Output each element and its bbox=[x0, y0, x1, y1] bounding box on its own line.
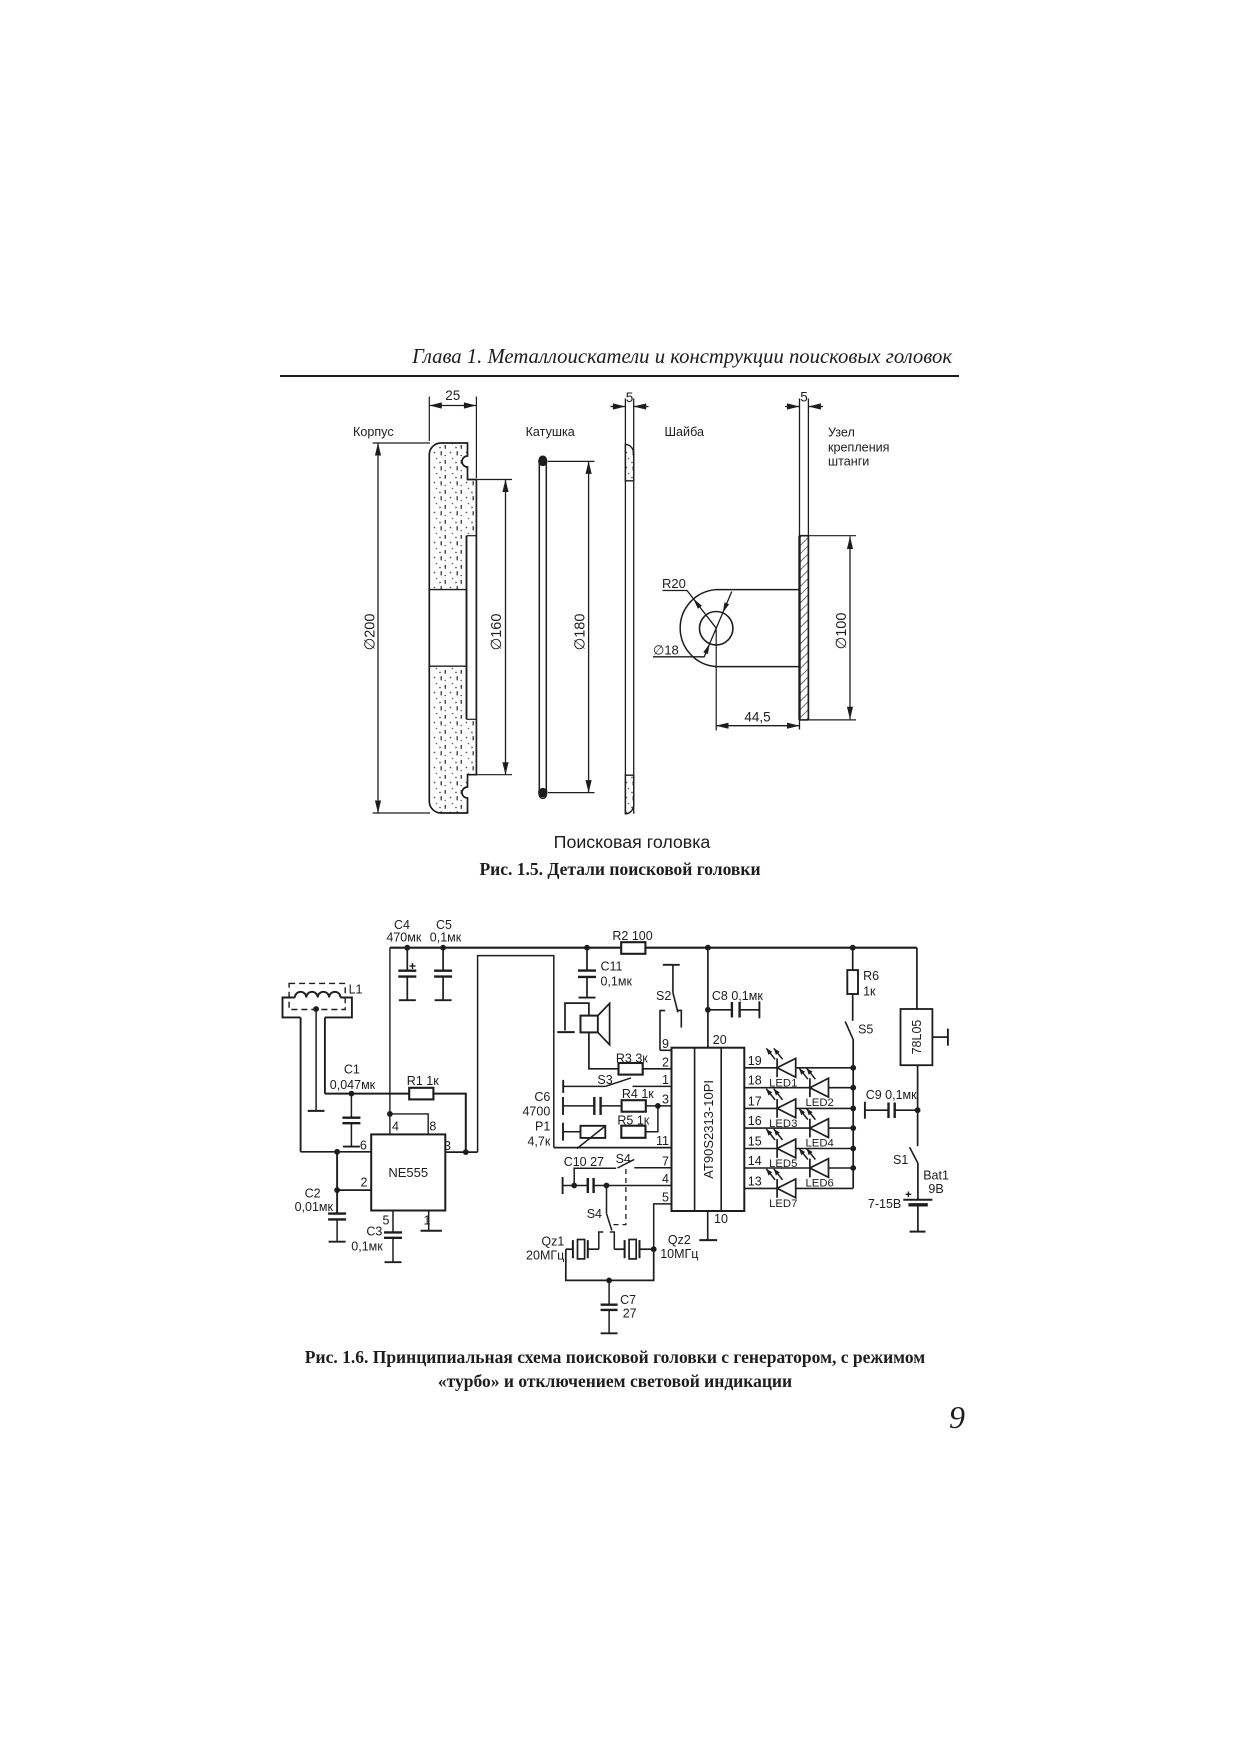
wire battery minus + ground bbox=[917, 1205, 919, 1232]
crystal Qz2 bbox=[614, 1248, 624, 1250]
washer profile bbox=[624, 399, 626, 814]
trimmer P1 bbox=[562, 1123, 564, 1141]
svg-text:0,1мк: 0,1мк bbox=[601, 975, 633, 989]
svg-text:C3: C3 bbox=[366, 1225, 382, 1239]
svg-text:4,7к: 4,7к bbox=[527, 1135, 550, 1149]
wire R5 to pin3 node bbox=[645, 1106, 658, 1132]
svg-text:20МГц: 20МГц bbox=[526, 1249, 564, 1263]
body inner slot lines bbox=[467, 535, 477, 537]
capacitor C11 bbox=[584, 945, 590, 951]
switch S4 lower bbox=[606, 1186, 608, 1214]
wire pin 11 bbox=[554, 1147, 672, 1149]
svg-text:L1: L1 bbox=[349, 983, 363, 997]
svg-text:P1: P1 bbox=[535, 1120, 550, 1134]
capacitor C9 bbox=[864, 1102, 866, 1119]
svg-text:Qz2: Qz2 bbox=[668, 1233, 691, 1247]
svg-text:C1: C1 bbox=[344, 1063, 360, 1077]
IC NE555 bbox=[371, 1134, 445, 1210]
mounting bar bbox=[799, 399, 801, 730]
svg-text:Bat1: Bat1 bbox=[923, 1169, 949, 1183]
S4 linkage (dashed) bbox=[612, 1169, 626, 1225]
svg-text:20: 20 bbox=[713, 1033, 727, 1047]
search coil L1 (dashed box) bbox=[289, 983, 345, 1009]
svg-text:9В: 9В bbox=[928, 1182, 943, 1196]
battery Bat1 bbox=[903, 1199, 932, 1201]
caption Поисковая головка bbox=[332, 832, 932, 853]
wire pin8 branch bbox=[390, 1114, 428, 1135]
svg-text:11: 11 bbox=[656, 1134, 669, 1148]
L1 centre tap to ground bbox=[313, 1006, 319, 1012]
wire pin 3 bbox=[445, 1151, 477, 1153]
wire pin 2 branch bbox=[336, 1152, 338, 1214]
head rule bbox=[280, 375, 959, 377]
svg-text:LED2: LED2 bbox=[806, 1097, 834, 1109]
wire left riser to NE555 pins 4/8 bbox=[389, 948, 391, 1135]
body profile hatched fill top bbox=[429, 443, 476, 590]
svg-text:4: 4 bbox=[392, 1120, 399, 1134]
resistor R6 bbox=[850, 945, 856, 951]
capacitor C6 bbox=[562, 1097, 564, 1115]
wire pin 5 bbox=[654, 1204, 672, 1249]
inductor winding L1 bbox=[295, 992, 341, 998]
svg-text:S4: S4 bbox=[587, 1207, 602, 1221]
svg-text:5: 5 bbox=[662, 1190, 669, 1204]
svg-text:0,1мк: 0,1мк bbox=[351, 1240, 383, 1254]
crystal Qz1 bbox=[566, 1248, 573, 1250]
caption Рис. 1.6 line2 bbox=[265, 1371, 965, 1392]
wire to 78L05 input bbox=[916, 948, 918, 1009]
svg-text:C7: C7 bbox=[620, 1293, 636, 1307]
svg-text:C6: C6 bbox=[534, 1090, 550, 1104]
svg-text:8: 8 bbox=[429, 1120, 436, 1134]
svg-text:C8 0,1мк: C8 0,1мк bbox=[712, 989, 763, 1003]
switch S2 bbox=[663, 964, 680, 966]
svg-text:S5: S5 bbox=[858, 1023, 873, 1037]
svg-text:2: 2 bbox=[361, 1175, 368, 1189]
svg-text:4: 4 bbox=[662, 1172, 669, 1186]
svg-text:R2 100: R2 100 bbox=[612, 929, 652, 943]
wire to pin 9 bbox=[660, 1049, 672, 1051]
page number bbox=[900, 1399, 965, 1436]
wire L1 right lead bbox=[324, 1017, 326, 1093]
svg-text:R3 3к: R3 3к bbox=[616, 1052, 648, 1066]
svg-text:5: 5 bbox=[383, 1214, 390, 1228]
dim D160 bbox=[476, 479, 512, 481]
wire oscillator node bbox=[325, 1093, 409, 1095]
wire +V top rail bbox=[390, 947, 917, 949]
svg-text:3: 3 bbox=[662, 1092, 669, 1106]
hole centerline bbox=[715, 628, 717, 730]
wire L1 left lead bbox=[300, 1017, 302, 1151]
dim D100 bbox=[808, 535, 856, 537]
svg-text:C10 27: C10 27 bbox=[564, 1155, 604, 1169]
svg-text:18: 18 bbox=[748, 1074, 762, 1088]
IC AT90S2313-10PI bbox=[672, 1048, 745, 1211]
svg-text:10: 10 bbox=[714, 1212, 728, 1226]
svg-text:3: 3 bbox=[444, 1139, 451, 1153]
switch S1 bbox=[910, 1147, 918, 1163]
lug bracket bbox=[680, 590, 799, 667]
wire R3 to pin 2 bbox=[643, 1068, 672, 1070]
svg-text:S3: S3 bbox=[597, 1073, 612, 1087]
body profile hatched fill bottom bbox=[429, 666, 476, 813]
svg-text:0,1мк: 0,1мк bbox=[430, 931, 462, 945]
node pin8 branch bbox=[387, 1111, 393, 1117]
svg-text:R5 1к: R5 1к bbox=[617, 1114, 649, 1128]
running head title bbox=[0, 346, 952, 369]
switch S5 bbox=[845, 1022, 853, 1039]
svg-text:17: 17 bbox=[748, 1094, 762, 1108]
svg-text:0,047мк: 0,047мк bbox=[330, 1078, 376, 1092]
switch S3 bbox=[562, 1080, 564, 1093]
wire pin 10 to ground bbox=[707, 1211, 709, 1240]
capacitor C8 bbox=[705, 1007, 711, 1013]
svg-text:S4: S4 bbox=[616, 1152, 631, 1166]
svg-text:13: 13 bbox=[748, 1174, 762, 1188]
caption Рис. 1.6 line1 bbox=[265, 1347, 965, 1368]
svg-text:0,01мк: 0,01мк bbox=[295, 1200, 334, 1214]
svg-text:470мк: 470мк bbox=[386, 931, 421, 945]
body profile outline bbox=[429, 443, 476, 813]
resistor R1 bbox=[409, 1088, 433, 1100]
resistor R3 bbox=[619, 1063, 643, 1075]
svg-text:2: 2 bbox=[662, 1055, 669, 1069]
svg-text:10МГц: 10МГц bbox=[660, 1247, 698, 1261]
svg-text:16: 16 bbox=[748, 1114, 762, 1128]
capacitor C1 bbox=[349, 1091, 355, 1097]
wire R1 to pin3 bbox=[433, 1094, 465, 1153]
svg-text:R6: R6 bbox=[863, 969, 879, 983]
svg-text:6: 6 bbox=[360, 1138, 367, 1152]
svg-text:1к: 1к bbox=[863, 985, 876, 999]
svg-text:19: 19 bbox=[748, 1054, 762, 1068]
wire pin 20 riser bbox=[705, 945, 711, 951]
svg-text:27: 27 bbox=[623, 1307, 637, 1321]
capacitor C10 bbox=[562, 1177, 564, 1194]
wire pin 6 bbox=[301, 1151, 372, 1153]
capacitor C5 bbox=[440, 945, 446, 951]
speaker bbox=[565, 1003, 589, 1030]
svg-text:15: 15 bbox=[748, 1135, 762, 1149]
svg-text:4700: 4700 bbox=[522, 1105, 550, 1119]
lug hole D18 bbox=[700, 612, 733, 645]
wire 78L05 output bbox=[917, 1065, 919, 1146]
svg-text:R4 1к: R4 1к bbox=[622, 1087, 654, 1101]
svg-text:7-15В: 7-15В bbox=[868, 1197, 901, 1211]
wire LED cathode bus bbox=[852, 1039, 854, 1189]
wire R4 to pin 3 bbox=[645, 1105, 671, 1107]
svg-text:7: 7 bbox=[662, 1154, 669, 1168]
capacitor C3 on pin 5 bbox=[392, 1211, 394, 1233]
resistor R5 bbox=[621, 1126, 645, 1138]
svg-text:1: 1 bbox=[424, 1214, 431, 1228]
wire pin 1 to ground bbox=[428, 1211, 430, 1231]
svg-text:NE555: NE555 bbox=[388, 1165, 428, 1180]
svg-text:78L05: 78L05 bbox=[910, 1020, 924, 1055]
svg-text:AT90S2313-10PI: AT90S2313-10PI bbox=[701, 1080, 716, 1179]
svg-text:14: 14 bbox=[748, 1154, 762, 1168]
svg-text:S1: S1 bbox=[893, 1153, 908, 1167]
svg-text:9: 9 bbox=[662, 1037, 669, 1051]
resistor R2 bbox=[621, 942, 645, 954]
svg-text:Qz1: Qz1 bbox=[541, 1235, 564, 1249]
svg-text:C2: C2 bbox=[305, 1187, 321, 1201]
svg-text:LED7: LED7 bbox=[769, 1198, 797, 1210]
svg-text:C9 0,1мк: C9 0,1мк bbox=[866, 1088, 917, 1102]
voltage regulator 78L05 bbox=[901, 1009, 933, 1065]
wire crystal common rail bbox=[566, 1249, 654, 1280]
svg-text:S2: S2 bbox=[656, 989, 671, 1003]
svg-text:R1 1к: R1 1к bbox=[407, 1074, 439, 1088]
coil shield outline bbox=[283, 998, 301, 1018]
switch S4 upper bbox=[574, 1168, 616, 1185]
coil ring bbox=[539, 456, 546, 798]
svg-text:C11: C11 bbox=[601, 960, 623, 974]
capacitor C2 bbox=[328, 1212, 346, 1214]
dim D200 bbox=[373, 442, 431, 444]
caption Рис. 1.5 bbox=[320, 859, 920, 880]
wire pin3 riser to speaker link bbox=[478, 956, 554, 1153]
capacitor C7 bbox=[606, 1278, 612, 1284]
wire speaker to R3 bbox=[589, 1032, 619, 1068]
dim D180 bbox=[548, 460, 595, 462]
svg-text:1: 1 bbox=[662, 1073, 669, 1087]
resistor R4 bbox=[622, 1100, 646, 1112]
capacitor C4 bbox=[404, 945, 410, 951]
